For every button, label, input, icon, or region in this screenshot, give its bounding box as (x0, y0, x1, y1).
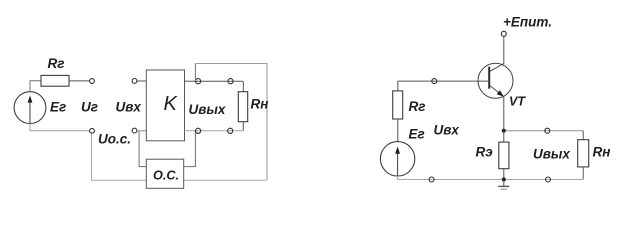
svg-text:Rг: Rг (409, 99, 426, 114)
svg-text:О.С.: О.С. (153, 168, 179, 182)
wire feedback top loop (194, 64, 196, 82)
resistor Rн (right) (578, 140, 589, 167)
wire K output top (185, 80, 244, 82)
transistor VT circle (478, 63, 513, 98)
svg-text:K: K (164, 93, 179, 115)
wire emitter node to Rн branch (504, 130, 583, 132)
wire K output bottom (185, 130, 244, 132)
terminal output bottom 2 (228, 128, 233, 133)
amplifier K (146, 70, 184, 141)
svg-text:Ег: Ег (409, 127, 425, 142)
svg-text:Uвх: Uвх (116, 100, 142, 115)
resistor Rг (right) (393, 91, 403, 119)
source Eг (left) (14, 92, 46, 124)
source Eг (right) (380, 142, 414, 176)
wire to Rн (right) top (582, 131, 584, 140)
resistor Rэ (499, 142, 509, 169)
terminal bottom input left (Uо.с.) (90, 128, 95, 133)
wire Rн bottom (242, 122, 244, 131)
terminal +Епит. (501, 31, 506, 36)
wire to Rн top (242, 81, 244, 92)
svg-text:Rг: Rг (48, 56, 65, 71)
svg-text:Rн: Rн (251, 97, 269, 112)
svg-text:Ег: Ег (50, 100, 66, 115)
wire down to Rг (right) (397, 81, 399, 91)
source Eг arrow (29, 98, 31, 124)
transistor VT emitter (490, 85, 504, 128)
terminal output bottom 1 (196, 128, 201, 133)
terminal top input right (132, 79, 137, 84)
feedback block O.C. (146, 159, 183, 188)
transistor VT base bar (488, 67, 490, 89)
svg-text:Uвх: Uвх (434, 123, 460, 138)
terminal bottom input right (132, 128, 137, 133)
wire source bottom (right) (397, 176, 399, 180)
terminal output top 2 (228, 79, 233, 84)
wire Rн (right) bottom (582, 167, 584, 180)
wire lower terminal to K (137, 130, 146, 132)
wire source bottom to lower terminal (30, 124, 90, 131)
wire bottom return (left circuit, behind O.C. box) (92, 133, 268, 180)
wire O.C. right jog (184, 131, 196, 167)
wire bottom return (right circuit) (398, 179, 584, 181)
junction emitter node (502, 129, 506, 133)
svg-text:Uвых: Uвых (533, 147, 570, 162)
terminal output top (right circuit) (545, 128, 550, 133)
ground (503, 180, 505, 187)
terminal top input left (90, 79, 95, 84)
terminal base wire (432, 79, 437, 84)
wire Rг to input terminal (69, 80, 90, 82)
resistor Rг (left) (41, 75, 69, 86)
terminal output top 1 (196, 79, 201, 84)
wire base (398, 80, 489, 82)
wire collector (490, 36, 504, 71)
source Eг (right) arrow (397, 149, 399, 176)
terminal bottom right (right circuit) (546, 177, 551, 182)
svg-text:VT: VT (509, 94, 526, 108)
junction ground node (502, 177, 506, 181)
svg-text:Rн: Rн (593, 145, 611, 160)
wire input terminal to K (137, 80, 146, 82)
wire Rэ bottom to ground node (503, 169, 505, 180)
terminal bottom left (right circuit) (429, 177, 434, 182)
svg-text:Rэ: Rэ (476, 145, 494, 160)
wire source top to Rг (30, 81, 41, 92)
svg-text:Uвых: Uвых (189, 102, 226, 117)
svg-text:Uо.с.: Uо.с. (98, 132, 131, 147)
wire down to Rэ (503, 131, 505, 142)
resistor Rн (left) (238, 92, 247, 122)
wire Rг to source (right) (397, 119, 399, 142)
wire O.C. left jog (139, 131, 146, 167)
svg-text:+Епит.: +Епит. (503, 15, 552, 30)
svg-text:Uг: Uг (81, 100, 98, 115)
